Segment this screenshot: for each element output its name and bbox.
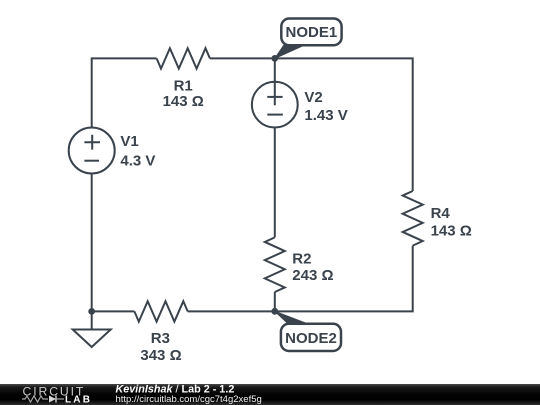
svg-text:http://circuitlab.com/cgc7t4g2: http://circuitlab.com/cgc7t4g2xef5g (116, 394, 262, 405)
V2 minus sign (267, 114, 283, 116)
svg-text:1.43 V: 1.43 V (304, 107, 347, 124)
svg-text:243 Ω: 243 Ω (292, 267, 333, 284)
CircuitLab logo diode (49, 396, 56, 403)
V2 plus crossbar (267, 96, 282, 98)
NODE2 callout box (281, 324, 341, 351)
voltage source V2 (252, 82, 298, 128)
svg-text:R3: R3 (151, 330, 170, 347)
svg-text:V1: V1 (120, 133, 138, 150)
NODE2 callout pointer wedge (275, 311, 310, 324)
svg-text:LAB: LAB (65, 395, 92, 405)
wire bottom horizontal left + left vertical bottom (92, 174, 135, 312)
CircuitLab logo zigzag (22, 396, 48, 402)
svg-text:V2: V2 (304, 89, 322, 106)
wire right vertical bottom + bottom horizontal right (188, 246, 413, 312)
wire middle vertical bottom (R2 to node2) (274, 292, 276, 311)
ground stub wire (91, 311, 93, 329)
NODE1 callout box (281, 19, 341, 46)
resistor R2 (265, 237, 285, 292)
wire top horizontal right + right vertical top (210, 58, 413, 191)
svg-text:143 Ω: 143 Ω (431, 222, 472, 239)
svg-text:NODE2: NODE2 (285, 330, 337, 347)
resistor R3 (134, 301, 187, 321)
V1 plus sign (84, 135, 100, 150)
svg-text:R1: R1 (174, 78, 193, 95)
NODE1 callout pointer wedge (275, 45, 306, 59)
svg-text:NODE1: NODE1 (286, 24, 338, 41)
node junction dot NODE2 (271, 308, 278, 315)
voltage source V1 (69, 128, 115, 174)
resistor R4 (403, 191, 423, 246)
svg-text:4.3 V: 4.3 V (120, 153, 155, 170)
svg-text:343 Ω: 343 Ω (140, 347, 181, 364)
svg-text:R4: R4 (431, 205, 451, 222)
ground symbol triangle (73, 330, 111, 348)
wire left vertical top + top-left corner to R1 (92, 58, 157, 127)
resistor R1 (157, 48, 210, 68)
wire middle vertical top (node1 into V2 plus) (274, 58, 276, 105)
svg-text:143 Ω: 143 Ω (163, 93, 204, 110)
wire middle vertical (V2 bottom to R2) (274, 128, 276, 238)
svg-text:R2: R2 (292, 251, 311, 268)
V1 minus sign (84, 160, 99, 162)
node junction dot ground node (88, 308, 95, 315)
node junction dot NODE1 (271, 55, 278, 62)
